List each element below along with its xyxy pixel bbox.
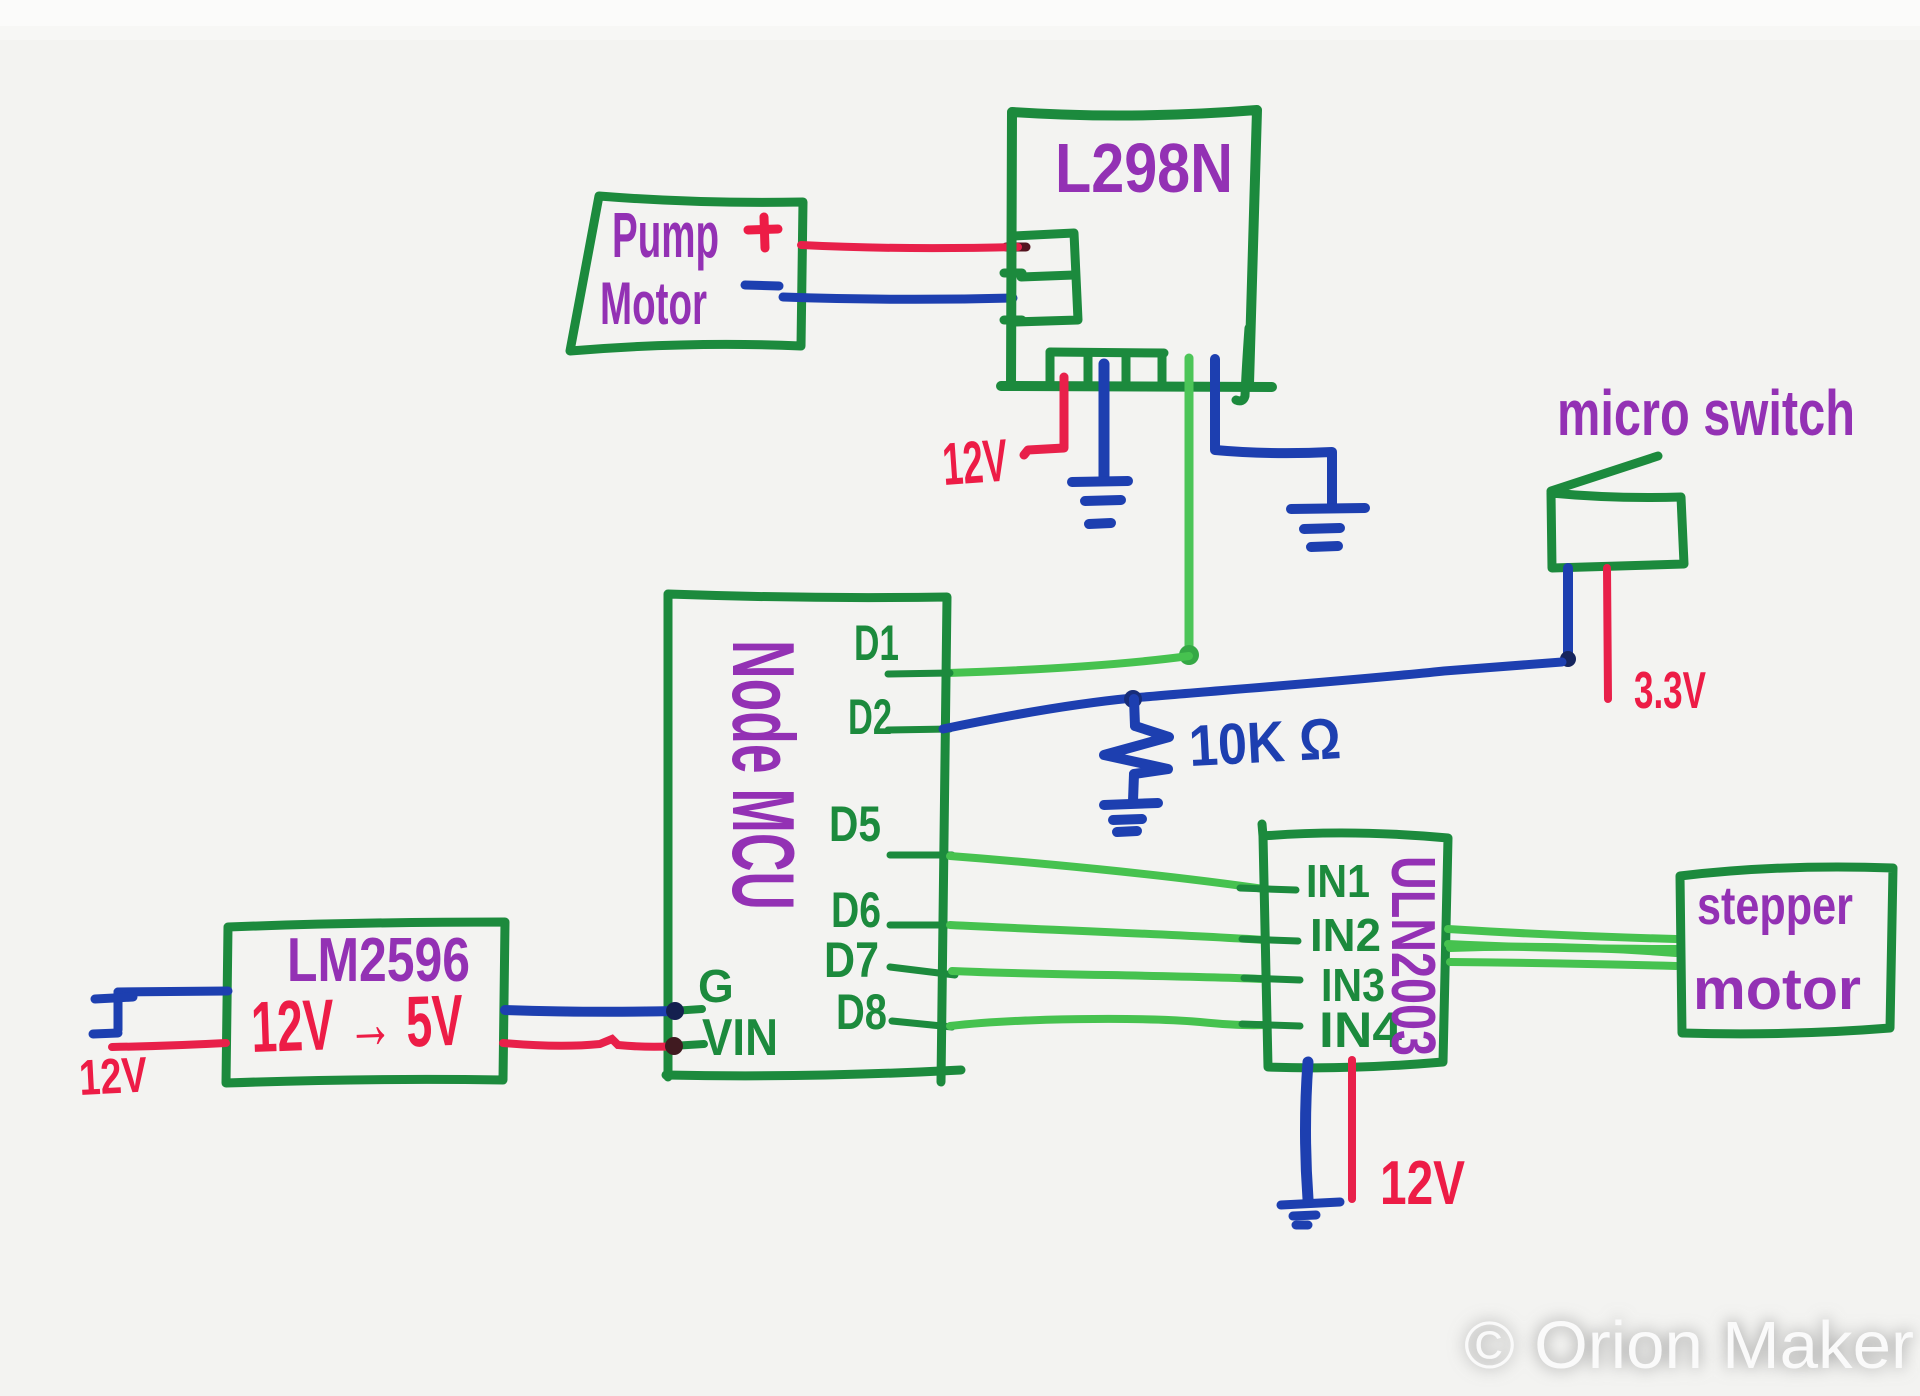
wire blue ground 2 pin of L298N: [1215, 359, 1332, 506]
svg-text:micro switch: micro switch: [1557, 377, 1855, 449]
wire red 12V pin of L298N: [1024, 377, 1064, 455]
svg-text:D1: D1: [854, 615, 899, 671]
wire light green ULN out2 to stepper: [1448, 944, 1676, 949]
wire red LM2596 to NodeMCU VIN: [503, 1039, 676, 1047]
micro switch body: [1551, 456, 1684, 568]
svg-text:G: G: [698, 960, 734, 1012]
wire blue ULN ground pin: [1306, 1062, 1309, 1199]
svg-text:12V: 12V: [78, 1046, 149, 1106]
ground under L298N: [1072, 481, 1128, 524]
svg-text:12V → 5V: 12V → 5V: [250, 981, 465, 1068]
micro switch red pin: [1607, 568, 1608, 699]
node junction D1 wire: [1179, 645, 1199, 665]
ground under ULN2003: [1281, 1202, 1340, 1225]
wire blue LM2596 left: [118, 991, 228, 992]
node junction D2 resistor: [1124, 690, 1142, 708]
svg-text:ULN2003: ULN2003: [1378, 856, 1447, 1056]
block stepper motor: [1680, 867, 1893, 1034]
block ULN2003: [1262, 824, 1448, 1068]
svg-text:© Orion Maker: © Orion Maker: [1464, 1308, 1914, 1383]
ground under resistor: [1104, 803, 1158, 832]
pump - terminal: [745, 285, 779, 286]
node junction G: [666, 1002, 684, 1020]
svg-text:stepper: stepper: [1697, 876, 1853, 936]
NodeMCU pin ticks right edge: [888, 673, 955, 1027]
wire blue D2 to micro switch: [943, 662, 1562, 729]
block NodeMCU: [666, 594, 961, 1082]
micro switch wire elbow blob: [1560, 651, 1576, 667]
wire light green D6 to IN2: [950, 925, 1264, 940]
wire light green D5 to IN1: [950, 856, 1264, 889]
resistor 10K: [1104, 699, 1169, 801]
watermark copyright Orion Maker: [1464, 1308, 1914, 1383]
svg-text:12V: 12V: [940, 427, 1010, 498]
wire light green to NodeMCU D1: [948, 656, 1189, 673]
svg-text:D8: D8: [836, 984, 887, 1040]
L298N bottom pin comb: [1050, 328, 1249, 401]
wire light green D7 to IN3: [952, 971, 1264, 979]
block L298N: [1001, 110, 1272, 387]
pump + terminal: [748, 217, 778, 248]
svg-text:3.3V: 3.3V: [1634, 662, 1706, 720]
svg-text:D5: D5: [829, 796, 881, 852]
micro switch blue pin: [1563, 568, 1573, 659]
battery symbol left: [93, 992, 133, 1034]
svg-text:Pump: Pump: [612, 199, 719, 271]
NodeMCU pin ticks left edge: [672, 1009, 704, 1046]
block Pump Motor: [570, 196, 803, 351]
wire red pump+ to L298N: [1006, 243, 1026, 252]
svg-text:VIN: VIN: [702, 1009, 778, 1067]
svg-text:D6: D6: [831, 882, 881, 938]
wire green L298N ENA to node D1: [1185, 358, 1194, 652]
wire light green D8 to IN4: [950, 1019, 1264, 1026]
svg-text:10K Ω: 10K Ω: [1187, 706, 1342, 779]
wire light green ULN out1 to stepper: [1448, 929, 1676, 939]
wire blue LM2596 to NodeMCU G: [505, 1010, 678, 1012]
wire red ULN 12V pin: [1348, 1060, 1356, 1199]
ground right of L298N: [1291, 508, 1365, 547]
svg-text:Motor: Motor: [600, 270, 707, 337]
ULN2003 pin ticks: [1240, 888, 1300, 1026]
svg-text:D7: D7: [824, 932, 879, 988]
scan white strip top: [0, 0, 1920, 26]
block LM2596: [226, 922, 505, 1083]
wire blue ground pin of L298N: [1099, 364, 1110, 480]
svg-text:IN2: IN2: [1310, 909, 1381, 961]
wire red LM2596 left 12V: [112, 1043, 226, 1047]
svg-text:Node MCU: Node MCU: [714, 640, 813, 910]
svg-text:12V: 12V: [1380, 1149, 1465, 1218]
svg-text:IN1: IN1: [1306, 855, 1370, 907]
svg-text:motor: motor: [1693, 957, 1861, 1022]
wire light green ULN out3 to stepper: [1450, 947, 1676, 953]
wire light green ULN out4 to stepper: [1450, 962, 1676, 966]
svg-text:D2: D2: [848, 689, 892, 745]
svg-text:L298N: L298N: [1055, 129, 1233, 207]
L298N left pin connector: [1004, 233, 1078, 322]
wire blue pump- to L298N: [783, 297, 1013, 299]
node junction VIN: [665, 1037, 683, 1055]
